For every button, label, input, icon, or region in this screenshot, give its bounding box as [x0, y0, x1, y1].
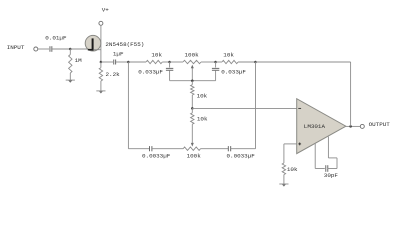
pot wiper arrow top: [191, 68, 193, 81]
capacitor 0.0033uF left: [150, 146, 152, 151]
node gate junction: [69, 48, 72, 51]
node n4: [254, 61, 257, 64]
wire n2 to pot: [170, 61, 183, 63]
svg-text:10k: 10k: [223, 52, 234, 59]
svg-text:1µF: 1µF: [113, 51, 124, 58]
ground below 10k: [279, 184, 288, 187]
resistor 10k plus input: [282, 163, 285, 175]
wire n1 to R 10k: [128, 61, 146, 63]
svg-text:0.01µF: 0.01µF: [45, 35, 67, 42]
node n1: [127, 61, 130, 64]
svg-text:0.0033µF: 0.0033µF: [142, 152, 171, 159]
svg-text:LM301A: LM301A: [304, 123, 326, 130]
svg-text:0.033µF: 0.033µF: [138, 68, 163, 75]
wire pot to node n3: [201, 61, 216, 63]
node minus input junction: [191, 107, 194, 110]
capacitor 30pF: [326, 165, 328, 172]
svg-text:OUTPUT: OUTPUT: [369, 121, 391, 128]
wire n1 down left side: [127, 62, 129, 149]
wire source node to C2: [101, 61, 113, 63]
svg-text:10k: 10k: [151, 51, 162, 58]
pot wiper arrow bottom: [191, 124, 193, 143]
svg-text:V+: V+: [102, 7, 110, 14]
potentiometer 100k top: [183, 60, 201, 63]
terminal V+: [99, 21, 103, 25]
resistor 10k lower vertical: [191, 113, 194, 124]
capacitor 0.01uF input: [50, 46, 52, 52]
svg-text:INPUT: INPUT: [7, 44, 25, 51]
terminal INPUT: [34, 47, 38, 51]
wire comp pin 1: [314, 144, 316, 169]
resistor 2.2k: [99, 68, 102, 81]
capacitor 0.033uF left: [169, 62, 171, 68]
transistor Q1 source connector: [93, 49, 101, 51]
svg-text:2N5458(F55): 2N5458(F55): [105, 41, 144, 48]
node source junction: [100, 61, 103, 64]
transistor Q1 channel bar: [92, 38, 94, 50]
wire cap to pot: [152, 148, 183, 150]
svg-text:100k: 100k: [187, 152, 202, 159]
wire C2 to node n1: [116, 61, 128, 63]
op-amp minus sign: [298, 107, 301, 109]
ground below 1M: [66, 80, 75, 83]
wire pot to cap right: [201, 148, 229, 150]
resistor 10k top-left: [146, 60, 162, 63]
wire minus input to op-amp: [192, 107, 296, 109]
transistor Q1 2N5458 JFET body: [85, 35, 101, 51]
op-amp U1 LM301A: [297, 99, 346, 154]
wire bus: [170, 80, 216, 82]
svg-text:1M: 1M: [75, 57, 83, 64]
resistor 10k upper vertical: [191, 81, 193, 85]
wire n4 to feedback corner: [256, 61, 351, 63]
svg-text:0.033µF: 0.033µF: [221, 68, 246, 75]
wire comp pin 8: [328, 168, 337, 170]
wire R to node n4: [238, 61, 256, 63]
wire op-amp output: [346, 125, 361, 127]
transistor Q1 gate foot: [88, 49, 94, 51]
capacitor 0.0033uF right: [228, 146, 230, 151]
svg-text:30pF: 30pF: [324, 172, 339, 179]
svg-text:0.0033µF: 0.0033µF: [227, 152, 256, 159]
svg-text:10k: 10k: [197, 92, 208, 99]
wire gate node to Q1 gate: [70, 48, 88, 50]
terminal OUTPUT: [360, 124, 364, 128]
svg-text:10k: 10k: [197, 116, 208, 123]
svg-text:2.2k: 2.2k: [106, 71, 121, 78]
resistor 1M: [69, 55, 72, 74]
wire plus input: [284, 143, 297, 145]
wire lower rail right: [231, 148, 256, 150]
wire drain/source vertical: [100, 25, 102, 62]
svg-text:100k: 100k: [185, 51, 200, 58]
ground below 2.2k: [96, 91, 105, 94]
wire lower rail left: [128, 148, 149, 150]
wire C1 to gate node: [52, 48, 70, 50]
node n3: [214, 61, 217, 64]
wire n3 to R 10k right: [216, 61, 222, 63]
wire input terminal to C1: [38, 48, 49, 50]
wire R to node n2: [162, 61, 169, 63]
svg-text:10k: 10k: [287, 166, 298, 173]
wire feedback vertical: [350, 62, 352, 126]
capacitor 1uF: [114, 60, 116, 65]
potentiometer 100k bottom: [183, 147, 200, 150]
node n2: [168, 61, 171, 64]
op-amp plus sign: [298, 143, 301, 145]
wire n4 down right side: [255, 62, 257, 149]
node output junction: [349, 125, 352, 128]
capacitor 0.033uF right: [215, 62, 217, 68]
node bus wiper: [191, 79, 194, 82]
resistor 10k top-right: [222, 60, 238, 63]
